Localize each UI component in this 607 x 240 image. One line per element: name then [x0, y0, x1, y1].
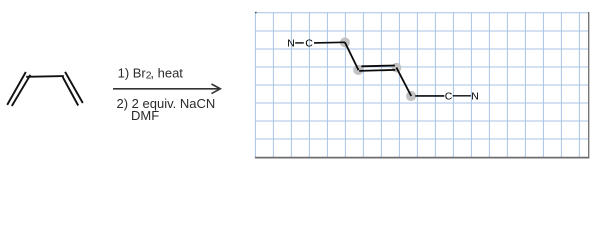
- double bond B-C upper line: [361, 65, 395, 68]
- svg-text:N: N: [287, 38, 295, 50]
- bond N1-C1: [295, 42, 304, 44]
- reaction arrow shaft: [113, 88, 220, 90]
- svg-text:N: N: [471, 91, 479, 103]
- butadiene left double bond inner line: [12, 75, 31, 106]
- bond vertex C to vertex D: [396, 68, 411, 96]
- bond C1 to vertex A: [314, 41, 345, 44]
- atom highlight dot vertex D: [406, 91, 416, 101]
- atom highlight dot vertex C: [392, 63, 402, 73]
- butadiene single bond C2-C3: [26, 75, 64, 78]
- bond C2-N2: [453, 95, 471, 97]
- canvas grid vertical lines: [255, 12, 579, 157]
- atom highlight dot vertex A: [340, 37, 350, 47]
- canvas right border: [588, 12, 590, 158]
- canvas grid horizontal lines: [255, 13, 589, 139]
- butadiene right double bond inner line: [63, 77, 78, 106]
- butadiene right double bond outer line: [65, 72, 83, 103]
- reaction arrow head: [212, 84, 221, 94]
- svg-text:1) Br2, heat: 1) Br2, heat: [118, 66, 184, 82]
- double bond B-C lower line: [359, 70, 395, 71]
- atom highlight dot vertex B: [353, 65, 363, 75]
- canvas bottom border: [255, 157, 589, 159]
- svg-text:C: C: [305, 38, 313, 50]
- butadiene left double bond outer line: [7, 72, 26, 105]
- drawing canvas panel background: [255, 12, 589, 158]
- bond vertex D to C2: [415, 95, 444, 97]
- svg-text:DMF: DMF: [131, 108, 159, 123]
- canvas top-left corner mark: [255, 12, 257, 13]
- svg-text:C: C: [445, 91, 453, 103]
- bond vertex A to vertex B: [345, 42, 359, 70]
